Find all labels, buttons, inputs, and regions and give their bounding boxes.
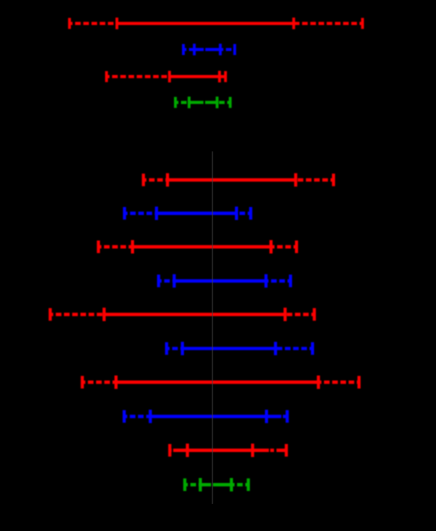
error bar row 2 (blue) — [182, 44, 236, 56]
error bar row 12 (blue) — [123, 410, 289, 423]
error bar row 7 (red) — [97, 240, 298, 253]
error bar row 11 (red) — [81, 376, 361, 389]
vertical reference line — [212, 151, 213, 504]
error bar row 8 (blue) — [157, 274, 292, 287]
error bar row 5 (red) — [142, 173, 335, 186]
error bar row 13 (red) — [168, 444, 288, 457]
error bar row 4 (green) — [174, 97, 232, 109]
error bar row 14 (green) — [183, 478, 250, 491]
error bar row 1 (red) — [68, 18, 364, 30]
error bar row 10 (blue) — [165, 342, 314, 355]
error bar row 6 (blue) — [123, 207, 252, 220]
error bar row 3 (red) — [105, 71, 227, 83]
error bar row 9 (red) — [49, 308, 316, 321]
